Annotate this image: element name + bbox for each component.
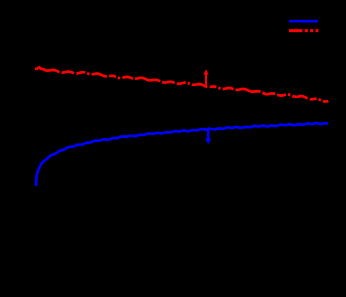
legend: blue solid swatch xyxy=(289,20,318,23)
blue down-arrow annotation xyxy=(205,129,211,145)
red dashed curve (declining series) xyxy=(35,68,328,102)
red up-arrow annotation xyxy=(203,69,208,85)
blue solid curve (logarithmic rising series) xyxy=(36,123,328,186)
legend: red dashed swatch xyxy=(289,29,319,32)
